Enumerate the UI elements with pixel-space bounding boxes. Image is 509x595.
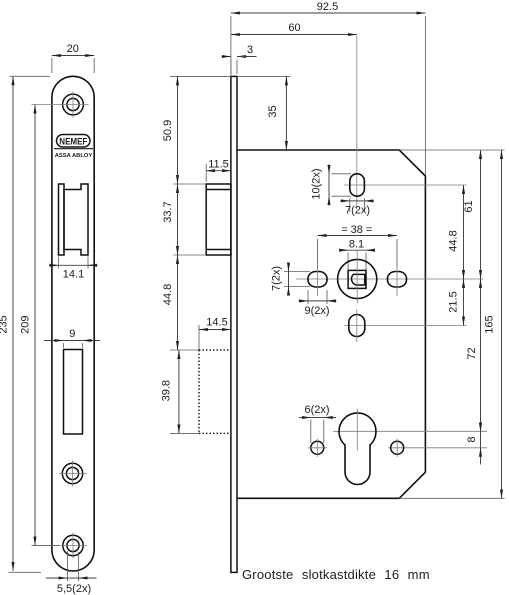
dim 7(2x) left — [271, 263, 311, 296]
left oval hole — [308, 272, 327, 288]
dim 50.9 — [162, 76, 231, 184]
svg-text:35: 35 — [267, 105, 279, 117]
latch cutout left bar — [59, 184, 65, 255]
dim 20 — [52, 43, 94, 73]
follower circle — [338, 259, 377, 298]
follower inner spring shape — [352, 274, 365, 285]
bottom left hole — [311, 441, 324, 454]
dim 61 — [463, 150, 481, 279]
extension line case bottom right — [399, 497, 504, 499]
svg-text:165: 165 — [484, 315, 496, 333]
horizontal centerline lower oval — [344, 325, 467, 327]
top screw hole — [32, 92, 89, 118]
follower square — [348, 270, 366, 288]
dim 10(2x) — [311, 165, 352, 206]
svg-text:39.8: 39.8 — [161, 380, 173, 401]
horizontal centerline top oval — [344, 184, 467, 186]
svg-text:7(2x): 7(2x) — [271, 266, 283, 291]
dim 21.5 — [448, 279, 464, 326]
svg-text:21.5: 21.5 — [448, 291, 460, 312]
svg-text:14.1: 14.1 — [63, 269, 84, 281]
dim 35 — [237, 76, 291, 150]
dim 33.7 — [162, 184, 206, 255]
right oval hole — [388, 272, 407, 288]
dim 14.1 — [49, 257, 98, 281]
svg-text:8.1: 8.1 — [349, 239, 364, 251]
dim 14.5 — [199, 317, 231, 351]
dim 209 — [19, 105, 59, 546]
svg-text:209: 209 — [19, 316, 31, 334]
svg-text:61: 61 — [463, 200, 475, 212]
dim 5,5(2x) — [46, 551, 97, 595]
svg-text:6(2x): 6(2x) — [304, 404, 329, 416]
dim 92.5 — [231, 1, 426, 175]
svg-text:8: 8 — [466, 436, 478, 442]
svg-text:44.8: 44.8 — [162, 284, 174, 305]
svg-text:235: 235 — [0, 315, 9, 333]
svg-text:Grootste slotkastdikte 16 mm: Grootste slotkastdikte 16 mm — [242, 567, 430, 582]
dim 7(2x) top — [340, 198, 374, 217]
svg-text:NEMEF: NEMEF — [59, 136, 87, 146]
svg-text:33.7: 33.7 — [162, 201, 174, 222]
deadbolt opening — [64, 350, 83, 435]
dim 235 — [0, 76, 50, 572]
left oval vertical centerline — [317, 266, 319, 296]
horizontal centerline cylinder — [333, 430, 487, 432]
top oval hole — [350, 174, 365, 196]
svg-text:= 38 =: = 38 = — [341, 224, 372, 236]
svg-text:11.5: 11.5 — [208, 159, 229, 171]
dim 8.1 — [339, 239, 375, 270]
svg-text:20: 20 — [67, 43, 79, 55]
NEMEF logo — [54, 135, 93, 159]
faceplate front view outline — [52, 76, 94, 571]
lower oval vertical centerline — [356, 309, 358, 342]
dim 39.8 — [161, 350, 200, 433]
svg-text:14.5: 14.5 — [206, 317, 227, 329]
cylinder hole euro profile — [339, 413, 376, 485]
svg-text:ASSA ABLOY: ASSA ABLOY — [55, 153, 93, 159]
dim 9(2x) — [299, 290, 337, 317]
svg-text:60: 60 — [288, 22, 300, 34]
svg-text:9: 9 — [69, 328, 75, 340]
horizontal centerline bottom holes — [388, 447, 487, 449]
middle screw hole — [59, 461, 87, 487]
dim 6(2x) — [299, 404, 336, 443]
svg-text:9(2x): 9(2x) — [304, 305, 329, 317]
dim 44.8 right — [448, 185, 464, 279]
svg-text:72: 72 — [466, 347, 478, 359]
latch side view — [206, 184, 231, 255]
dim 72 — [466, 279, 481, 431]
extension line case top right — [399, 149, 504, 151]
dim 9 — [44, 328, 100, 348]
dim 44.8 left — [162, 255, 199, 350]
svg-text:7(2x): 7(2x) — [345, 205, 370, 217]
horizontal centerline through follower row — [296, 278, 484, 280]
svg-text:10(2x): 10(2x) — [311, 168, 323, 199]
deadbolt hidden outline (dashed) — [199, 350, 231, 433]
lock case outline — [237, 150, 425, 498]
cylinder vertical centerline — [356, 409, 358, 451]
latch cutout opening — [64, 184, 88, 255]
dim 3 — [222, 44, 257, 74]
svg-text:44.8: 44.8 — [448, 230, 460, 251]
svg-text:50.9: 50.9 — [162, 120, 174, 141]
svg-text:3: 3 — [247, 44, 253, 56]
dim 60 — [231, 22, 357, 209]
bottom screw hole — [32, 533, 87, 559]
lower oval hole — [349, 315, 365, 337]
dim =38= — [318, 224, 398, 268]
follower vertical centerline — [356, 250, 358, 304]
dim 8 — [466, 414, 481, 465]
svg-text:5,5(2x): 5,5(2x) — [57, 583, 91, 595]
svg-text:92.5: 92.5 — [317, 1, 338, 13]
bottom right hole — [391, 441, 404, 454]
faceplate strip side view — [231, 76, 237, 572]
right oval vertical centerline — [396, 266, 398, 296]
dim 165 — [484, 150, 502, 498]
dim 11.5 — [206, 159, 231, 182]
